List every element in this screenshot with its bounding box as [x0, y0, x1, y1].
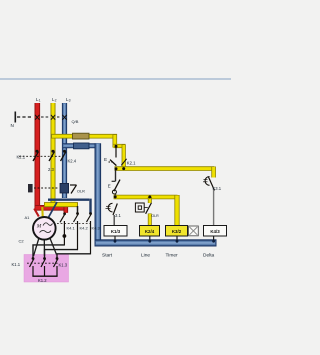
svg-text:K1.2: K1.2 — [38, 278, 47, 283]
svg-text:2.3: 2.3 — [48, 167, 54, 172]
wire L3 blue vertical — [62, 103, 67, 198]
svg-text:Start: Start — [102, 253, 113, 259]
svg-text:Timer: Timer — [166, 253, 178, 259]
wire black drop yellow band to col2 — [77, 206, 79, 214]
coil to bus stubs — [115, 236, 214, 241]
pink contactor K1 box background — [24, 255, 69, 283]
wire red drop to K4 col1 — [64, 207, 69, 213]
wire L2 yellow vertical — [51, 103, 56, 205]
svg-text:K2.1: K2.1 — [127, 160, 136, 165]
control: junction dots on second rail — [114, 195, 117, 198]
motor bottom fan wires — [34, 239, 39, 257]
svg-text:K4.1: K4.1 — [67, 226, 76, 231]
divider line — [0, 78, 231, 80]
wire long control horizontal to timer contact — [115, 166, 215, 171]
fuse on blue line — [74, 143, 90, 149]
svg-text:K2.4: K2.4 — [68, 159, 77, 164]
svg-text:K1/3: K1/3 — [111, 229, 121, 234]
disconnect switch Q/B — [15, 112, 61, 123]
control: timer NO contact K3.1 right — [205, 177, 209, 186]
svg-text:K1.3: K1.3 — [59, 263, 68, 268]
wire corner down right — [211, 167, 216, 178]
wire yellow control vertical down to start — [113, 134, 118, 148]
coil K3/2 timer box (energized) — [166, 226, 188, 237]
svg-text:K3/2: K3/2 — [172, 229, 182, 234]
dashed linkage — [27, 262, 59, 264]
X contacts of disconnect on each phase — [35, 115, 67, 120]
svg-text:Q/B: Q/B — [72, 119, 79, 124]
motor M — [33, 217, 56, 240]
svg-text:K2/4: K2/4 — [145, 229, 155, 234]
wire blue control tap horizontal — [63, 143, 97, 148]
X-box timer symbol — [189, 226, 199, 236]
OLR 7-symbol — [70, 184, 77, 186]
svg-text:OLR: OLR — [151, 214, 159, 218]
wire second control horizontal — [114, 195, 178, 200]
svg-text:K1.1: K1.1 — [12, 262, 21, 267]
motor feed stubs — [34, 209, 39, 217]
wire seal branch top — [114, 144, 126, 148]
svg-text:3.1: 3.1 — [115, 213, 121, 218]
wire dark from L3 end to col3 — [48, 198, 89, 200]
control: start pushbutton — [115, 145, 118, 148]
wire seal branch right vertical — [122, 145, 126, 169]
svg-text:K2.1: K2.1 — [17, 155, 26, 160]
wire thick blue vertical (neutral drop) — [95, 143, 102, 244]
wire yellow control feed horizontal — [51, 134, 117, 139]
control: timer NC contact K3.1 left — [108, 203, 112, 212]
wire stop button segment — [115, 170, 117, 181]
supply labels L1 L2 L3 — [36, 97, 71, 103]
star point bar — [32, 275, 57, 277]
svg-text:Line: Line — [141, 253, 150, 259]
svg-text:Delta: Delta — [203, 253, 215, 259]
coil K1/3 star contactor box — [104, 226, 127, 237]
wire yellow bend horizontal to K4 col2 — [44, 202, 78, 207]
svg-text:K4.2: K4.2 — [80, 226, 89, 231]
svg-text:K4/3: K4/3 — [210, 229, 220, 234]
coil K4/3 delta contactor box — [204, 226, 227, 237]
svg-text:N: N — [11, 123, 14, 128]
svg-text:L1: L1 — [36, 97, 41, 103]
contactor K2 main contacts row — [36, 150, 67, 153]
svg-text:E: E — [108, 184, 111, 189]
svg-text:L2: L2 — [52, 97, 57, 103]
seal contact K2.1 — [121, 159, 126, 166]
bottom labels — [102, 253, 215, 259]
overload relay row — [28, 184, 33, 192]
wires delta columns to star columns (nested L-runs) — [33, 245, 91, 259]
fuse on yellow line — [73, 133, 90, 139]
delta contactor K4 columns — [63, 212, 92, 215]
coil K2/4 line contactor box (energized) — [140, 226, 160, 237]
wire L1 red vertical — [34, 103, 40, 209]
star contactor K1 contacts inside pink box — [32, 257, 59, 260]
wire gray to K4/3 coil — [213, 190, 215, 226]
blue bus bar bottom — [95, 239, 217, 246]
svg-text:C2: C2 — [19, 239, 25, 244]
svg-text:L3: L3 — [66, 97, 71, 103]
svg-text:M: M — [36, 224, 42, 230]
control: OLR auxiliary contact — [135, 203, 144, 212]
wire yellow down through OLR contact to K2/4 coil — [148, 197, 152, 203]
svg-text:E: E — [104, 157, 107, 162]
OLR heater box on blue wire — [60, 183, 69, 193]
wire dark to K1/3 coil — [113, 215, 115, 226]
svg-text:K4.3: K4.3 — [92, 226, 101, 231]
wire red bend horizontal — [35, 205, 68, 211]
svg-text:A1: A1 — [25, 215, 31, 220]
wire corner down to K3/2 coil — [174, 195, 179, 226]
coil labels — [111, 229, 220, 234]
svg-text:OLR: OLR — [77, 190, 85, 194]
